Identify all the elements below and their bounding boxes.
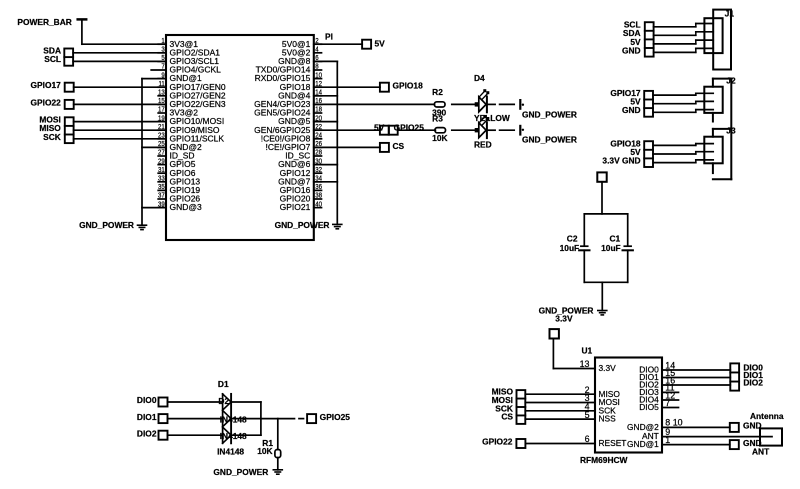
- svg-text:GPIO22: GPIO22: [482, 437, 513, 447]
- svg-text:5V: 5V: [374, 123, 385, 133]
- svg-text:5: 5: [161, 55, 165, 63]
- svg-text:SCL: SCL: [44, 54, 61, 64]
- svg-text:11: 11: [158, 81, 165, 89]
- svg-text:GND@3: GND@3: [170, 202, 202, 212]
- svg-text:5: 5: [585, 410, 590, 420]
- svg-text:D1: D1: [218, 379, 229, 389]
- svg-text:DIO2: DIO2: [137, 428, 157, 438]
- svg-text:GPIO22: GPIO22: [31, 97, 62, 107]
- svg-text:1: 1: [665, 435, 670, 445]
- svg-text:10K: 10K: [432, 133, 447, 143]
- svg-text:GPIO25: GPIO25: [394, 123, 425, 133]
- svg-text:35: 35: [158, 184, 165, 192]
- svg-text:GND: GND: [622, 45, 641, 55]
- svg-text:SCK: SCK: [43, 132, 61, 142]
- svg-text:ANT: ANT: [752, 446, 770, 456]
- svg-text:J3: J3: [726, 125, 736, 135]
- svg-text:13: 13: [158, 89, 165, 97]
- svg-text:J2: J2: [726, 76, 736, 86]
- svg-text:3.3V: 3.3V: [599, 363, 617, 373]
- svg-text:5V: 5V: [375, 39, 386, 49]
- svg-text:36: 36: [315, 184, 322, 192]
- svg-text:30: 30: [315, 158, 322, 166]
- svg-text:RED: RED: [474, 139, 492, 149]
- svg-text:D2: D2: [218, 396, 229, 406]
- svg-text:IN4148: IN4148: [220, 414, 247, 424]
- svg-text:GPIO21: GPIO21: [280, 202, 311, 212]
- svg-text:33: 33: [158, 175, 165, 183]
- svg-text:GND: GND: [622, 105, 641, 115]
- svg-text:21: 21: [158, 124, 165, 132]
- svg-text:GND_POWER: GND_POWER: [213, 467, 268, 477]
- svg-text:R2: R2: [432, 87, 443, 97]
- svg-text:GPIO17: GPIO17: [31, 80, 62, 90]
- svg-text:10uF: 10uF: [560, 243, 580, 253]
- svg-text:NSS: NSS: [599, 414, 617, 424]
- svg-text:10uF: 10uF: [601, 243, 621, 253]
- svg-text:38: 38: [315, 192, 322, 200]
- svg-text:GND: GND: [743, 421, 762, 431]
- svg-text:32: 32: [315, 167, 322, 175]
- svg-text:3.3V: 3.3V: [555, 313, 573, 323]
- svg-text:DIO1: DIO1: [137, 412, 157, 422]
- svg-text:26: 26: [315, 141, 322, 149]
- svg-text:CS: CS: [393, 141, 405, 151]
- svg-text:23: 23: [158, 132, 165, 140]
- svg-text:13: 13: [580, 359, 590, 369]
- svg-text:25: 25: [158, 141, 165, 149]
- svg-text:GND_POWER: GND_POWER: [522, 135, 577, 145]
- svg-text:18: 18: [315, 106, 322, 114]
- svg-text:DIO2: DIO2: [743, 377, 763, 387]
- svg-text:37: 37: [158, 192, 165, 200]
- svg-text:RFM69HCW: RFM69HCW: [580, 455, 628, 465]
- svg-text:28: 28: [315, 149, 322, 157]
- svg-text:7: 7: [665, 398, 670, 408]
- svg-text:9: 9: [161, 72, 165, 80]
- svg-text:10K: 10K: [257, 446, 272, 456]
- svg-text:GND_POWER: GND_POWER: [275, 220, 330, 230]
- svg-text:DIO0: DIO0: [137, 395, 157, 405]
- svg-text:10: 10: [315, 72, 322, 80]
- svg-text:24: 24: [315, 132, 322, 140]
- svg-text:GND_POWER: GND_POWER: [522, 109, 577, 119]
- svg-text:POWER_BAR: POWER_BAR: [17, 17, 71, 27]
- svg-text:1: 1: [161, 38, 165, 46]
- svg-text:29: 29: [158, 158, 165, 166]
- svg-text:20: 20: [315, 115, 322, 123]
- svg-text:DIO5: DIO5: [639, 402, 659, 412]
- svg-text:34: 34: [315, 175, 322, 183]
- svg-text:D4: D4: [474, 73, 485, 83]
- svg-text:2: 2: [315, 38, 319, 46]
- svg-text:CS: CS: [501, 412, 513, 422]
- svg-text:IN4148: IN4148: [217, 446, 244, 456]
- svg-text:3.3V GND: 3.3V GND: [602, 155, 640, 165]
- svg-text:39: 39: [158, 201, 165, 209]
- svg-text:6: 6: [315, 55, 319, 63]
- svg-text:RESET: RESET: [599, 438, 627, 448]
- svg-text:IN4148: IN4148: [220, 431, 247, 441]
- svg-text:PI: PI: [325, 31, 333, 41]
- svg-text:27: 27: [158, 149, 165, 157]
- svg-text:22: 22: [315, 124, 322, 132]
- svg-text:GPIO25: GPIO25: [320, 412, 351, 422]
- svg-text:YELLOW: YELLOW: [474, 113, 510, 123]
- svg-text:31: 31: [158, 167, 165, 175]
- svg-text:40: 40: [315, 201, 322, 209]
- svg-text:14: 14: [315, 89, 322, 97]
- svg-text:GPIO18: GPIO18: [393, 81, 424, 91]
- svg-text:U1: U1: [582, 345, 593, 355]
- svg-text:Antenna: Antenna: [750, 411, 784, 421]
- svg-text:3: 3: [161, 46, 165, 54]
- svg-text:GND_POWER: GND_POWER: [79, 220, 134, 230]
- svg-text:12: 12: [315, 81, 322, 89]
- svg-text:GND@1: GND@1: [627, 439, 659, 449]
- svg-text:19: 19: [158, 115, 165, 123]
- svg-text:R3: R3: [432, 113, 443, 123]
- svg-text:J1: J1: [725, 8, 735, 18]
- svg-text:7: 7: [161, 63, 165, 71]
- svg-text:17: 17: [158, 106, 165, 114]
- svg-text:8: 8: [315, 63, 319, 71]
- svg-text:6: 6: [585, 434, 590, 444]
- svg-text:4: 4: [315, 46, 319, 54]
- svg-text:15: 15: [158, 98, 165, 106]
- svg-text:16: 16: [315, 98, 322, 106]
